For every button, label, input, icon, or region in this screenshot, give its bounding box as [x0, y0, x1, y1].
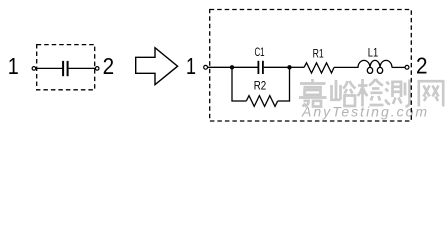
- wire from junction right to R1: [291, 66, 304, 68]
- svg-text:1: 1: [8, 53, 19, 79]
- 峪: [332, 80, 356, 106]
- terminal circle node 1 (equivalent circuit): [204, 65, 208, 69]
- dashed box (equivalent circuit): [210, 10, 412, 122]
- wire from capacitor to terminal 2: [69, 67, 96, 69]
- svg-text:R2: R2: [254, 79, 267, 93]
- dashed box (left component): [37, 45, 95, 90]
- wire right vertical from R2 branch to junction: [289, 67, 291, 101]
- 网: [419, 81, 443, 106]
- wire from R2 to right vertical: [278, 100, 290, 102]
- wire from L1 to terminal 2: [392, 66, 405, 68]
- junction node left: [230, 65, 234, 69]
- wire from terminal 1 to C1: [208, 66, 258, 68]
- 嘉: [299, 79, 327, 107]
- svg-text:AnyTesting.com: AnyTesting.com: [301, 104, 429, 120]
- 检: [358, 79, 384, 107]
- capacitor C1: [257, 61, 259, 74]
- terminal circle node 2 (left circuit): [95, 67, 99, 71]
- svg-text:1: 1: [186, 53, 196, 79]
- svg-text:R1: R1: [313, 47, 324, 61]
- wire from R1 to L1: [334, 66, 359, 68]
- watermark 嘉峪检测网: [299, 79, 443, 107]
- resistor R1: [304, 63, 334, 73]
- svg-text:2: 2: [416, 52, 428, 78]
- resistor R2: [246, 96, 277, 107]
- capacitor (left circuit): [62, 61, 64, 76]
- 测: [386, 80, 410, 107]
- junction node right: [287, 65, 291, 69]
- svg-text:2: 2: [103, 53, 115, 79]
- svg-text:C1: C1: [254, 45, 264, 59]
- wire left vertical to R2 branch: [231, 67, 233, 101]
- wire bottom-left to R2: [231, 100, 246, 102]
- arrow (transform symbol): [136, 48, 178, 85]
- wire from terminal 1 to capacitor: [36, 67, 63, 69]
- wire from C1 to junction right: [264, 66, 291, 68]
- terminal circle node 1 (left circuit): [32, 67, 36, 71]
- inductor L1: [358, 60, 392, 67]
- svg-text:L1: L1: [368, 46, 379, 60]
- terminal circle node 2 (equivalent circuit): [405, 65, 409, 69]
